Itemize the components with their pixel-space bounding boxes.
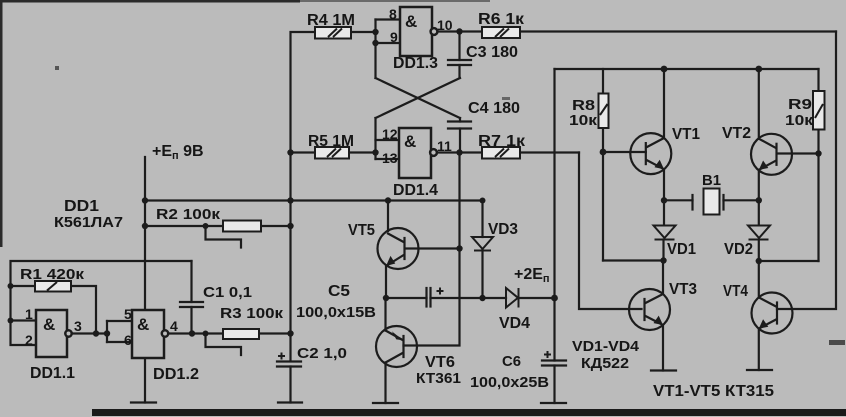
svg-text:К561ЛА7: К561ЛА7: [54, 214, 123, 231]
svg-text:3: 3: [74, 318, 82, 334]
svg-text:C4 180: C4 180: [468, 100, 520, 117]
svg-text:DD1.1: DD1.1: [30, 365, 75, 382]
svg-text:B1: B1: [702, 172, 721, 189]
svg-text:VD3: VD3: [488, 221, 518, 238]
svg-text:10к: 10к: [569, 112, 598, 129]
svg-text:5: 5: [124, 306, 132, 322]
svg-text:R5 1M: R5 1M: [308, 133, 354, 150]
svg-text:1: 1: [25, 306, 33, 322]
svg-text:КД522: КД522: [581, 355, 629, 372]
svg-text:100,0x15В: 100,0x15В: [296, 304, 376, 321]
svg-text:DD1: DD1: [64, 198, 99, 215]
svg-text:VD1-VD4: VD1-VD4: [572, 338, 640, 355]
svg-text:R4 1M: R4 1M: [307, 12, 355, 29]
svg-text:C2 1,0: C2 1,0: [297, 345, 347, 362]
svg-text:R2 100к: R2 100к: [156, 206, 221, 223]
svg-text:&: &: [404, 132, 416, 151]
svg-text:VT2: VT2: [722, 125, 751, 142]
svg-text:12: 12: [382, 126, 398, 142]
svg-text:&: &: [405, 12, 417, 31]
svg-text:+Eп 9В: +Eп 9В: [152, 143, 204, 162]
svg-text:DD1.3: DD1.3: [393, 55, 438, 72]
svg-text:C6: C6: [502, 353, 521, 370]
svg-text:VD2: VD2: [724, 241, 753, 258]
svg-text:VT3: VT3: [669, 281, 697, 298]
svg-text:9: 9: [390, 29, 398, 45]
svg-text:10к: 10к: [785, 112, 814, 129]
svg-text:R6 1к: R6 1к: [478, 11, 525, 28]
svg-text:100,0x25В: 100,0x25В: [470, 374, 549, 391]
svg-text:10: 10: [437, 17, 453, 33]
svg-text:C5: C5: [328, 283, 350, 300]
svg-text:R3 100к: R3 100к: [220, 305, 284, 322]
svg-text:&: &: [137, 315, 149, 334]
svg-text:VD1: VD1: [667, 241, 696, 258]
svg-text:R7 1к: R7 1к: [478, 133, 526, 150]
svg-text:VT6: VT6: [425, 354, 455, 371]
svg-text:VD4: VD4: [499, 315, 530, 332]
svg-text:VT5: VT5: [348, 222, 375, 239]
svg-text:C1 0,1: C1 0,1: [203, 284, 252, 301]
svg-text:R9: R9: [788, 96, 812, 113]
svg-text:VT4: VT4: [723, 283, 748, 300]
svg-text:КТ361: КТ361: [416, 370, 461, 387]
svg-text:11: 11: [437, 138, 452, 154]
svg-text:C3 180: C3 180: [466, 44, 518, 61]
svg-text:VT1-VT5 КТ315: VT1-VT5 КТ315: [653, 383, 774, 400]
svg-text:4: 4: [170, 318, 178, 334]
svg-text:6: 6: [124, 332, 132, 348]
svg-text:DD1.2: DD1.2: [153, 366, 199, 383]
svg-text:8: 8: [389, 6, 397, 22]
svg-text:13: 13: [382, 150, 398, 166]
svg-text:VT1: VT1: [672, 126, 700, 143]
svg-text:2: 2: [25, 332, 33, 348]
svg-text:DD1.4: DD1.4: [393, 182, 438, 199]
svg-text:&: &: [43, 315, 55, 334]
svg-text:R1 420к: R1 420к: [20, 266, 85, 283]
